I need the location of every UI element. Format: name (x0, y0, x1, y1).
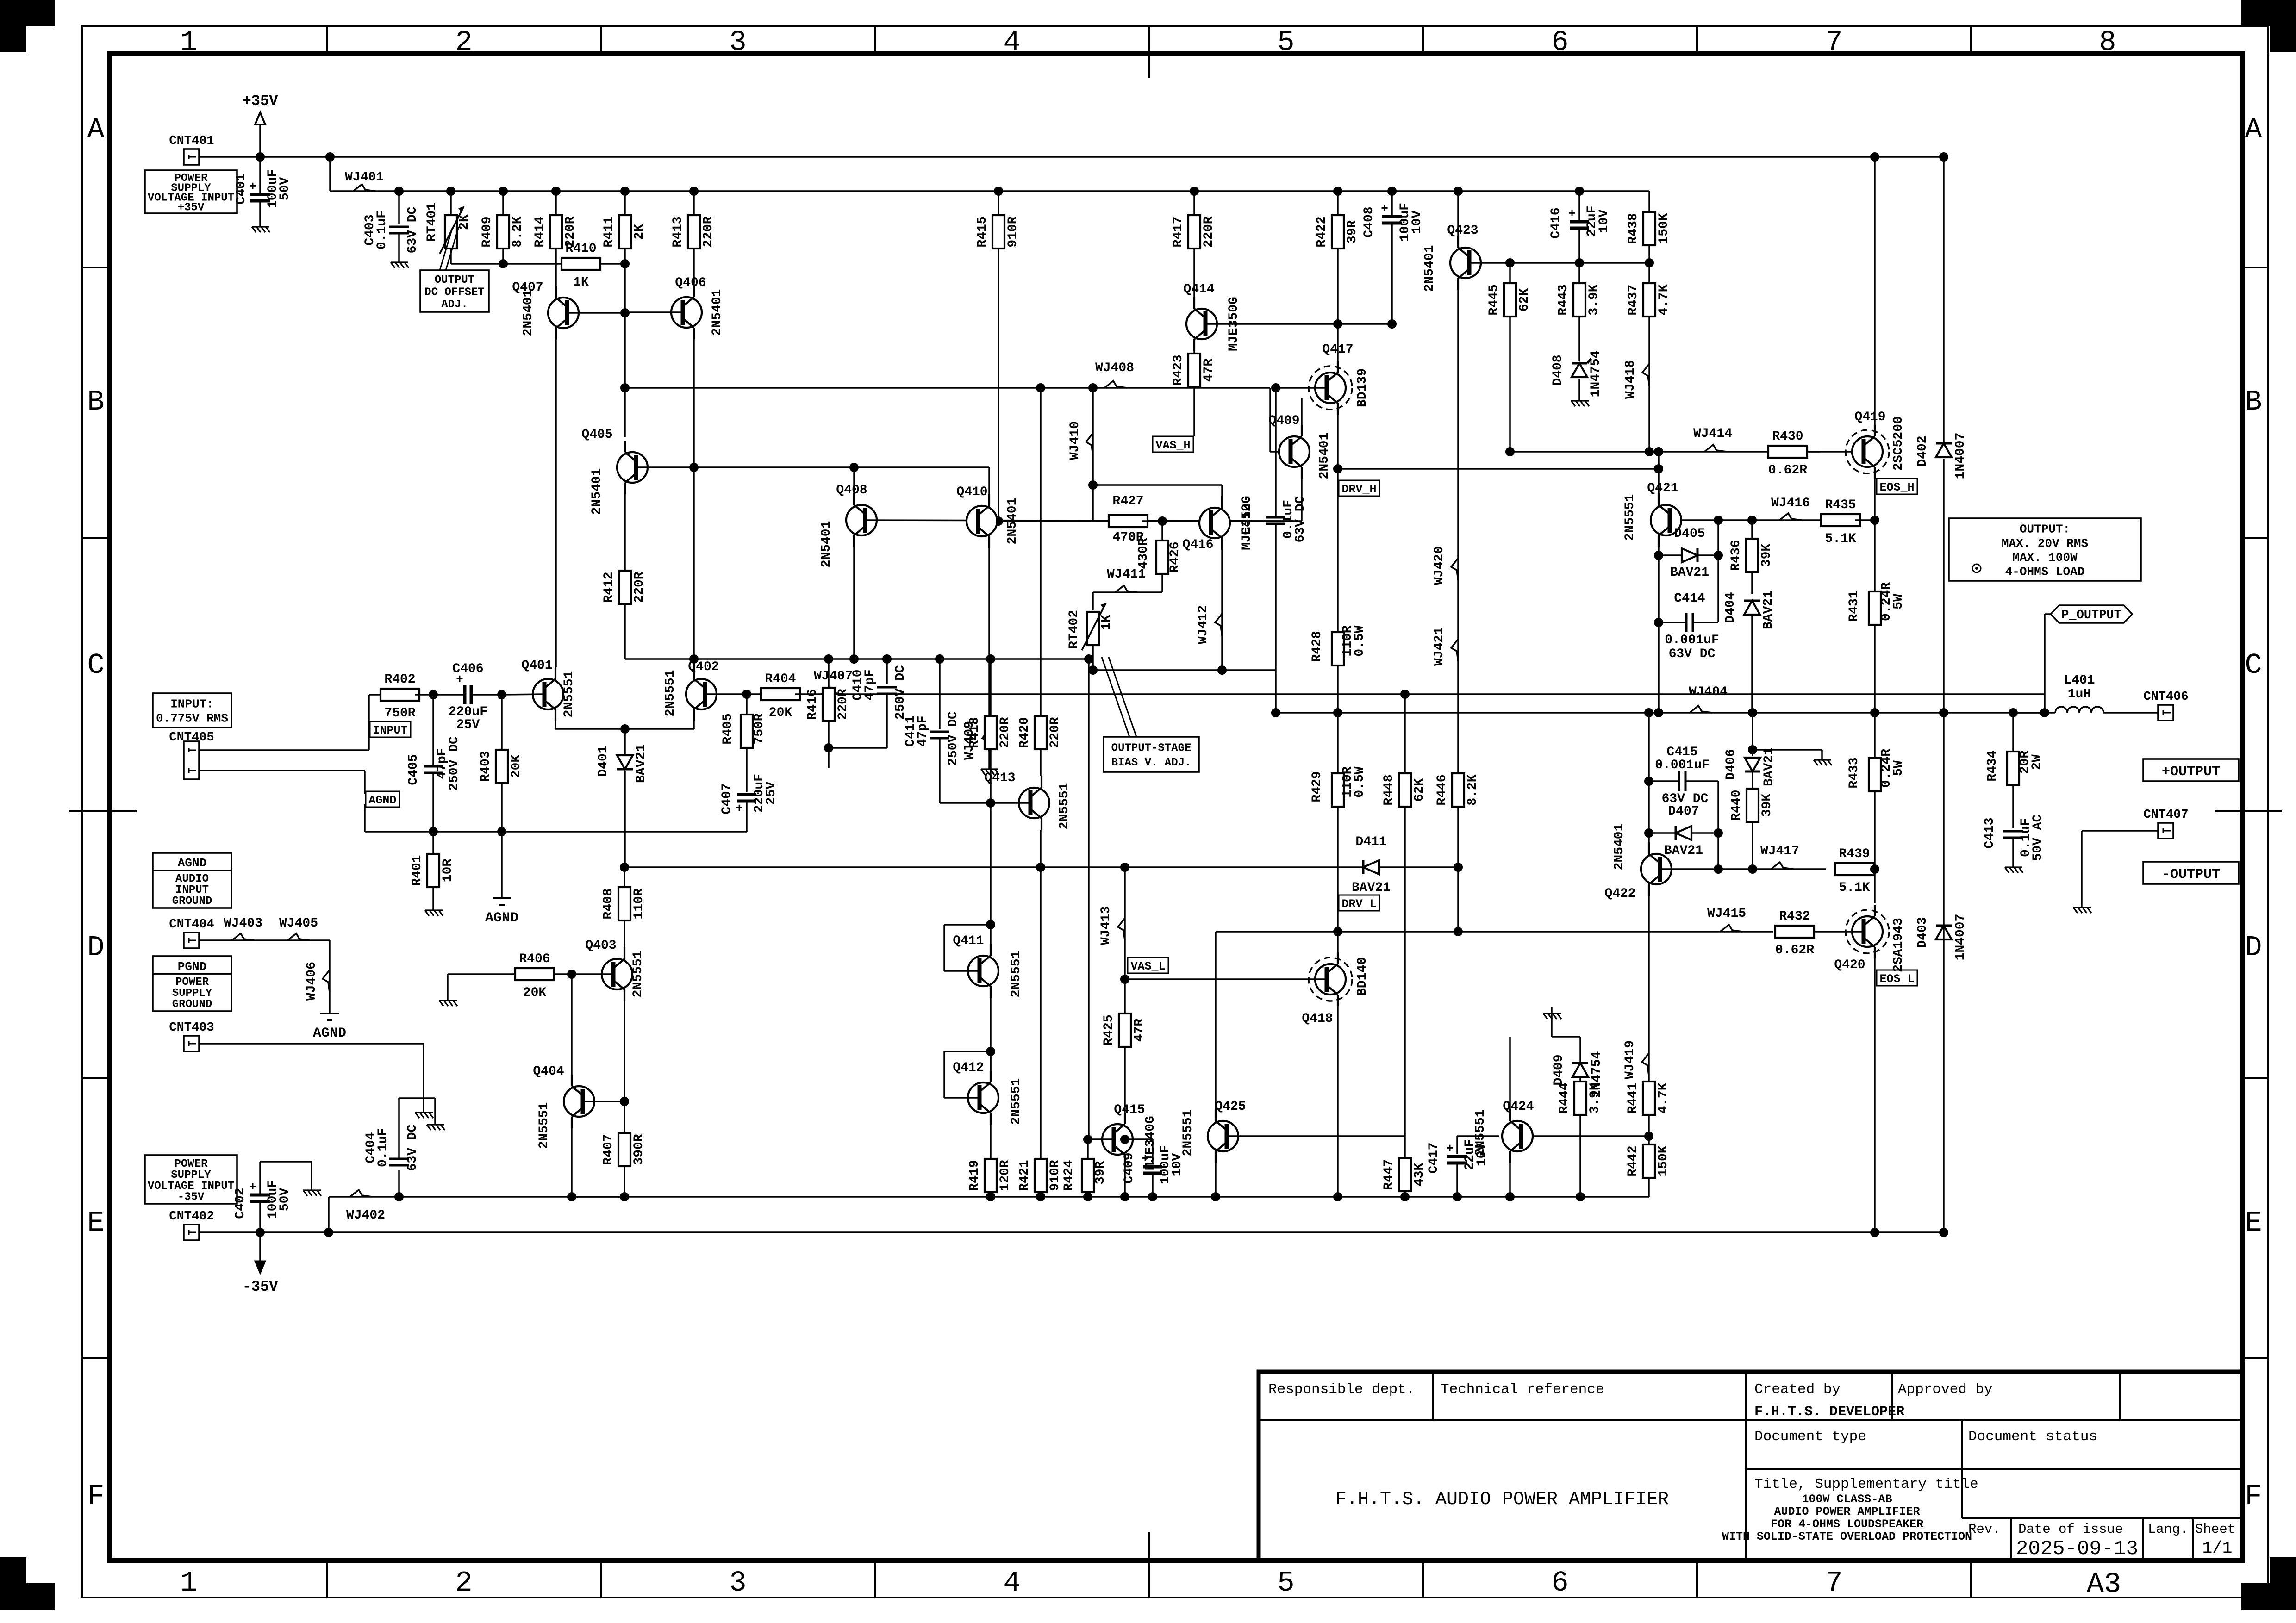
svg-text:Approved by: Approved by (1898, 1381, 1993, 1398)
wire Q409 emitter up (1301, 398, 1303, 425)
wire R416 C410 bottoms (829, 747, 887, 749)
connector CNT401 (184, 149, 199, 165)
svg-text:D: D (87, 931, 104, 964)
diode D408 zener (1572, 363, 1587, 377)
wire Q415 base (1089, 1138, 1114, 1140)
node Q404 base (620, 1097, 629, 1106)
transistor Q402 (686, 679, 717, 709)
wire P_OUTPUT riser (2044, 694, 2046, 713)
node junction at x713 (325, 152, 335, 162)
node Q424 emitter (1505, 1192, 1515, 1201)
svg-text:R445: R445 (1487, 284, 1501, 315)
node C404 bottom (394, 1192, 404, 1201)
svg-text:RT402: RT402 (1067, 610, 1081, 649)
wire Q420 base row WJ415 (1459, 931, 1773, 933)
svg-text:AGND: AGND (368, 794, 396, 807)
svg-text:WJ416: WJ416 (1771, 496, 1810, 510)
svg-text:C406: C406 (452, 662, 483, 676)
connector CNT404 (184, 933, 199, 948)
label box power supply input -35V (145, 1155, 237, 1204)
svg-text:CNT404: CNT404 (169, 918, 214, 932)
svg-text:2N5551: 2N5551 (537, 1102, 551, 1149)
node Q404 collector join (567, 970, 576, 979)
node rail413 junction (394, 187, 404, 196)
label output stage bias adj box (1104, 737, 1199, 772)
node D405 cathode (1714, 551, 1723, 560)
wire C412 node to rail (1275, 670, 1277, 713)
diode D405 (1682, 548, 1697, 562)
wire bottom component rail (624, 1196, 1649, 1198)
svg-text:120R: 120R (998, 1160, 1012, 1191)
node R421 bottom (1036, 1192, 1045, 1201)
svg-text:39R: 39R (1093, 1161, 1108, 1185)
svg-text:R413: R413 (671, 216, 685, 247)
wire Q407 collector to Q401 collector (555, 328, 557, 667)
svg-text:+: + (1446, 1142, 1454, 1156)
svg-text:R415: R415 (975, 216, 990, 247)
resistor R421 (1040, 830, 1042, 1159)
svg-text:2N5401: 2N5401 (819, 521, 834, 568)
node AGND R403 (497, 827, 506, 836)
svg-text:INPUT: INPUT (175, 884, 209, 896)
wire WJ402 riser (328, 1197, 330, 1232)
svg-text:C415: C415 (1666, 745, 1697, 759)
wire Q411 emitter down (990, 998, 992, 1071)
node rail413 junction (1387, 187, 1397, 196)
svg-text:Technical reference: Technical reference (1441, 1381, 1604, 1398)
svg-text:4: 4 (1003, 1567, 1020, 1599)
node rail D404col (1748, 708, 1757, 717)
wire Q421 collector (1658, 452, 1660, 493)
diode D401 (624, 729, 626, 754)
svg-text:Q419: Q419 (1854, 410, 1885, 424)
svg-text:4.7K: 4.7K (1656, 1082, 1671, 1113)
capacitor C409 (1152, 1139, 1154, 1164)
resistor R411 (624, 191, 626, 215)
node WJ414 left (1654, 447, 1663, 456)
svg-text:Q423: Q423 (1447, 224, 1478, 238)
resistor R418 (990, 659, 992, 716)
svg-text:D409: D409 (1552, 1054, 1566, 1085)
svg-text:0.1uF: 0.1uF (376, 1128, 390, 1167)
transistor Q411 diode-connected (968, 956, 998, 986)
transistor Q416 (1199, 508, 1230, 538)
transistor Q406 (671, 297, 702, 328)
node C415 left (1644, 777, 1653, 786)
svg-text:0.5W: 0.5W (1353, 625, 1367, 656)
ground at R406 (447, 994, 449, 1001)
transistor Q415 (1102, 1124, 1133, 1155)
ground at CNT407 (2081, 901, 2083, 908)
node R436 top (1747, 516, 1757, 525)
svg-text:C: C (87, 649, 104, 682)
node R418 top (986, 654, 995, 664)
svg-text:220R: 220R (998, 717, 1012, 748)
resistor R447 (1404, 1136, 1406, 1158)
wire Q417 emitter to DRV_H node (1337, 415, 1339, 632)
wire Q418 collector down (1337, 1006, 1339, 1197)
svg-text:-35V: -35V (243, 1278, 279, 1295)
resistor R425 (1124, 1001, 1126, 1014)
resistor R431 (1869, 591, 1881, 625)
node +35V junction at C401 (256, 152, 265, 162)
ground at CNT403 (423, 1106, 424, 1113)
node Q414 base C408 (1387, 319, 1397, 329)
svg-text:MAX. 20V RMS: MAX. 20V RMS (2002, 536, 2088, 550)
svg-text:47R: 47R (1132, 1019, 1147, 1042)
wire WJ408 to Q409 base (625, 387, 1270, 389)
node R439 right (1870, 864, 1879, 874)
jumper WJ411 (1115, 585, 1137, 592)
wire +35V rail (199, 156, 1944, 158)
ground at D408 (1578, 394, 1580, 401)
wire Q401 collector (555, 666, 556, 668)
node Q415 base column top (1084, 654, 1093, 664)
svg-text:10V: 10V (1475, 1143, 1489, 1167)
svg-text:Lang.: Lang. (2148, 1522, 2188, 1537)
svg-text:Q420: Q420 (1834, 958, 1865, 972)
svg-text:R419: R419 (967, 1160, 982, 1191)
node R441 bottom (1644, 1132, 1653, 1141)
resistor R433 (1869, 758, 1881, 791)
capacitor C406 (463, 685, 467, 704)
svg-text:BD139: BD139 (1355, 368, 1370, 407)
svg-text:20K: 20K (523, 986, 547, 1000)
svg-text:R448: R448 (1382, 774, 1396, 805)
svg-text:4.7K: 4.7K (1657, 284, 1671, 315)
svg-text:AGND: AGND (313, 1026, 346, 1041)
svg-text:Sheet: Sheet (2195, 1522, 2235, 1537)
svg-text:R435: R435 (1825, 498, 1856, 512)
row reference ticks (82, 267, 110, 268)
svg-text:100W CLASS-AB: 100W CLASS-AB (1802, 1492, 1892, 1506)
svg-text:150K: 150K (1656, 1145, 1671, 1176)
svg-text:39K: 39K (1759, 544, 1774, 567)
svg-text:3.9K: 3.9K (1588, 1082, 1602, 1113)
node WJ412 bottom (1217, 665, 1227, 675)
node R415 base row (994, 516, 1003, 526)
svg-text:Q424: Q424 (1503, 1100, 1534, 1114)
jumper WJ403 (232, 933, 254, 940)
svg-text:Q412: Q412 (953, 1061, 984, 1075)
resistor R432 (1775, 926, 1814, 938)
svg-text:Title, Supplementary title: Title, Supplementary title (1754, 1476, 1978, 1492)
svg-text:2K: 2K (632, 224, 647, 240)
svg-text:4: 4 (1003, 26, 1020, 59)
node R426 top (1158, 516, 1167, 526)
resistor R409 (502, 191, 504, 215)
capacitor C414 (1685, 613, 1688, 632)
svg-text:2N5401: 2N5401 (521, 290, 536, 336)
svg-text:Q415: Q415 (1114, 1103, 1145, 1117)
title block frame (1259, 1372, 2242, 1561)
resistor R437 (1648, 263, 1650, 283)
wire CNT407 to ground (2082, 830, 2158, 832)
wire Q424 collector stub (1509, 1037, 1511, 1109)
wire R403 to AGND symbol (501, 832, 503, 893)
resistor R440 (1747, 789, 1759, 822)
wire Q412 loop (990, 1051, 992, 1071)
jumper WJ420 (1451, 558, 1458, 580)
svg-text:GROUND: GROUND (172, 895, 212, 908)
jumper WJ401 (353, 184, 375, 191)
svg-text:+: + (249, 180, 256, 193)
netlabel EOS_H (1877, 479, 1917, 494)
transistor Q422 (1641, 854, 1672, 884)
svg-text:R414: R414 (533, 216, 547, 247)
connector CNT406 (2158, 705, 2173, 721)
node C411 top (935, 654, 944, 664)
svg-text:2N5551: 2N5551 (1057, 783, 1072, 830)
transistor Q418 BD140 (1315, 964, 1346, 995)
svg-text:0.62R: 0.62R (1768, 463, 1807, 478)
svg-text:8.2K: 8.2K (511, 216, 525, 247)
node R444 bottom (1576, 1192, 1585, 1201)
svg-text:62K: 62K (1517, 288, 1532, 312)
svg-text:EOS_L: EOS_L (1879, 972, 1914, 986)
wire Q423 base row (1469, 262, 1649, 264)
label output dc offset adj box (420, 270, 489, 312)
svg-text:R444: R444 (1557, 1082, 1572, 1113)
node C410 top (882, 654, 892, 664)
sheet center tick bottom (1148, 1532, 1150, 1598)
node rail413 junction (446, 187, 455, 196)
resistor R430 (1768, 446, 1807, 458)
svg-text:0.001uF: 0.001uF (1655, 758, 1710, 772)
svg-text:CNT405: CNT405 (169, 731, 214, 745)
node Q411 collector (986, 920, 995, 929)
node rail413 junction (620, 187, 630, 196)
node DRV_L node (1333, 927, 1342, 936)
node R446 bottom (1454, 927, 1463, 936)
svg-text:AGND: AGND (485, 910, 518, 926)
svg-text:BAV21: BAV21 (1352, 881, 1391, 895)
svg-text:1K: 1K (1099, 615, 1114, 630)
wire bias bottom row (1093, 669, 1276, 671)
svg-text:CNT407: CNT407 (2143, 808, 2188, 822)
label box output spec (1949, 518, 2141, 581)
netlabel AGND input (366, 791, 399, 807)
svg-text:8: 8 (2099, 26, 2116, 59)
svg-text:RT401: RT401 (425, 203, 439, 242)
svg-text:220R: 220R (1202, 216, 1216, 247)
resistor R401 (432, 832, 434, 854)
resistor R429 (1332, 773, 1344, 807)
svg-text:390R: 390R (632, 1134, 646, 1165)
wire CNT403 to ground (199, 1043, 424, 1045)
wire tail rail (624, 866, 1364, 868)
svg-text:250V DC: 250V DC (893, 665, 908, 720)
svg-text:Q418: Q418 (1302, 1012, 1333, 1026)
svg-text:D406: D406 (1724, 749, 1738, 780)
wire down from R416 node (828, 748, 830, 768)
svg-text:R410: R410 (565, 242, 596, 256)
wire Q423 emitter down (1457, 290, 1459, 773)
svg-text:2W: 2W (2030, 754, 2044, 770)
border corner mark bottom-right (2241, 1583, 2296, 1610)
svg-text:1N4007: 1N4007 (1953, 914, 1968, 961)
svg-text:2N5401: 2N5401 (1423, 245, 1437, 292)
node WJ410 bottom (1088, 480, 1098, 490)
svg-text:WJ411: WJ411 (1107, 567, 1146, 582)
node Q422 base D407 (1714, 864, 1723, 874)
svg-text:220R: 220R (836, 689, 850, 720)
svg-text:R418: R418 (967, 717, 982, 748)
resistor R444 (1579, 1078, 1581, 1082)
node rail413 junction (1333, 187, 1342, 196)
resistor R420 (1035, 716, 1047, 749)
svg-text:R433: R433 (1847, 757, 1861, 788)
node Q405 base (689, 463, 699, 472)
node rail413 junction (1190, 187, 1199, 196)
svg-text:WJ413: WJ413 (1099, 906, 1113, 945)
connector CNT407 (2158, 823, 2173, 839)
node Q418 rail (1333, 708, 1342, 717)
svg-text:0.62R: 0.62R (1775, 943, 1814, 958)
node rail D402 (1939, 708, 1948, 717)
svg-text:A: A (2245, 113, 2262, 146)
node C409 top (1120, 1135, 1129, 1144)
resistor R426 (1161, 521, 1163, 541)
resistor R435 (1821, 514, 1860, 526)
svg-text:25V: 25V (456, 718, 480, 732)
svg-text:+: + (736, 802, 743, 815)
wire Q420 collector down (1874, 957, 1876, 1232)
node D405 col top (1714, 516, 1723, 525)
ground at C404 (434, 1118, 436, 1125)
svg-text:R432: R432 (1779, 909, 1810, 924)
svg-text:+: + (1568, 207, 1576, 221)
transistor Q414 (1186, 309, 1217, 339)
svg-text:7: 7 (1825, 1567, 1842, 1599)
svg-text:BAV21: BAV21 (634, 744, 649, 783)
svg-text:Q414: Q414 (1183, 282, 1214, 297)
wire output rail (1276, 712, 2045, 714)
svg-text:Q410: Q410 (956, 485, 987, 499)
label box AGND audio input ground (153, 853, 231, 871)
wire Q408 base row (865, 520, 1302, 521)
svg-text:R434: R434 (1985, 750, 2000, 781)
svg-text:ADJ.: ADJ. (441, 298, 468, 311)
resistor R438 (1648, 191, 1650, 212)
node R435 right (1870, 516, 1879, 525)
node VAS_L tail join (1120, 863, 1129, 872)
svg-text:R438: R438 (1626, 213, 1641, 244)
resistor R402 (369, 694, 385, 696)
svg-text:Rev.: Rev. (1968, 1522, 2001, 1537)
ground at C401 (259, 220, 261, 227)
svg-text:3: 3 (729, 1567, 746, 1599)
svg-text:750R: 750R (384, 706, 415, 721)
svg-text:WJ412: WJ412 (1196, 605, 1210, 644)
svg-text:2N5551: 2N5551 (1181, 1110, 1195, 1157)
svg-text:R421: R421 (1017, 1160, 1032, 1191)
netlabel VAS_L (1128, 958, 1168, 973)
capacitor C417 (1456, 1136, 1458, 1154)
wire WJ401 distribution rail (330, 190, 1649, 192)
resistor R423 (1193, 351, 1195, 354)
svg-text:C414: C414 (1674, 591, 1705, 606)
resistor R403 (501, 695, 503, 750)
node D401 anode (620, 724, 630, 734)
node R445 bottom (1505, 447, 1515, 456)
svg-text:R416: R416 (805, 689, 820, 720)
capacitor C410 (886, 659, 888, 684)
svg-text:F.H.T.S. DEVELOPER: F.H.T.S. DEVELOPER (1754, 1404, 1904, 1420)
svg-text:WJ408: WJ408 (1095, 361, 1134, 375)
svg-text:-OUTPUT: -OUTPUT (2162, 867, 2220, 883)
svg-text:2N5401: 2N5401 (1612, 824, 1627, 871)
resistor R448 (1404, 694, 1406, 773)
netlabel +OUTPUT (2143, 759, 2239, 781)
svg-text:+OUTPUT: +OUTPUT (2162, 764, 2220, 780)
jumper WJ405 (287, 933, 310, 940)
node Q414 base R422 (1333, 319, 1342, 329)
netlabel INPUT (370, 721, 411, 737)
resistor R406 (554, 973, 613, 975)
wire Q422 emitter col (1648, 713, 1650, 852)
svg-text:POWER: POWER (175, 976, 209, 989)
diode D403 (1936, 926, 1952, 939)
svg-text:R405: R405 (721, 713, 735, 744)
wire D405 col (1717, 520, 1719, 622)
wire C417 top stub (1457, 1135, 1499, 1137)
svg-text:R406: R406 (519, 952, 550, 966)
svg-text:D403: D403 (1915, 917, 1930, 948)
resistor R419 (990, 1125, 992, 1159)
svg-text:220R: 220R (1048, 717, 1062, 748)
resistor R436 (1746, 539, 1758, 572)
svg-text:Document status: Document status (1968, 1429, 2097, 1445)
svg-text:WJ414: WJ414 (1693, 427, 1732, 441)
svg-text:R425: R425 (1102, 1014, 1116, 1045)
resistor R446 (1452, 773, 1464, 807)
svg-text:BAV21: BAV21 (1761, 591, 1776, 629)
ground at D406 (1821, 753, 1823, 760)
svg-text:B: B (2245, 386, 2262, 418)
svg-text:BD140: BD140 (1355, 957, 1370, 996)
svg-text:INPUT: INPUT (373, 724, 407, 737)
svg-text:A: A (87, 113, 105, 146)
transistor Q409 (1279, 436, 1310, 467)
svg-text:Q413: Q413 (984, 771, 1015, 785)
connector CNT405 (184, 741, 199, 779)
svg-text:910R: 910R (1006, 216, 1020, 247)
node R424 bottom (1083, 1192, 1092, 1201)
diode D409 zener (1572, 1063, 1588, 1077)
svg-text:20K: 20K (769, 706, 792, 720)
svg-text:VAS_H: VAS_H (1155, 439, 1190, 452)
node Q408 collector (849, 654, 859, 664)
svg-text:2SC5200: 2SC5200 (1891, 416, 1906, 471)
svg-text:8.2K: 8.2K (1466, 774, 1480, 805)
wire CNT404 to AGND (199, 939, 330, 941)
wire base row Q424 (1521, 1135, 1649, 1137)
svg-text:E: E (2245, 1206, 2262, 1239)
capacitor C402 (250, 1194, 270, 1197)
transistor Q401 (533, 679, 563, 709)
svg-text:Q403: Q403 (585, 939, 616, 953)
svg-text:63V DC: 63V DC (406, 1124, 420, 1171)
svg-text:50V: 50V (278, 1188, 292, 1212)
node Q421 collector join (1654, 464, 1663, 473)
node D405 anode (1654, 551, 1663, 560)
node rail413 junction (994, 187, 1003, 196)
jumper WJ410 (1086, 433, 1093, 455)
svg-text:250V DC: 250V DC (946, 711, 961, 766)
svg-text:R436: R436 (1729, 540, 1743, 571)
svg-text:220R: 220R (632, 572, 647, 603)
